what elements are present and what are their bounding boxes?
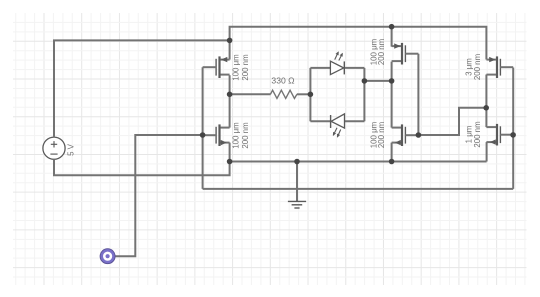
svg-text:200 nm: 200 nm — [241, 54, 250, 81]
svg-text:200 nm: 200 nm — [241, 122, 250, 149]
svg-text:200 nm: 200 nm — [377, 121, 386, 148]
svg-text:200 nm: 200 nm — [473, 53, 482, 80]
svg-text:200 nm: 200 nm — [473, 121, 482, 148]
svg-text:330 Ω: 330 Ω — [271, 75, 295, 85]
svg-text:100 μm: 100 μm — [232, 122, 241, 149]
svg-text:100 μm: 100 μm — [232, 54, 241, 81]
svg-text:200 nm: 200 nm — [377, 38, 386, 65]
svg-text:5 V: 5 V — [67, 143, 76, 156]
